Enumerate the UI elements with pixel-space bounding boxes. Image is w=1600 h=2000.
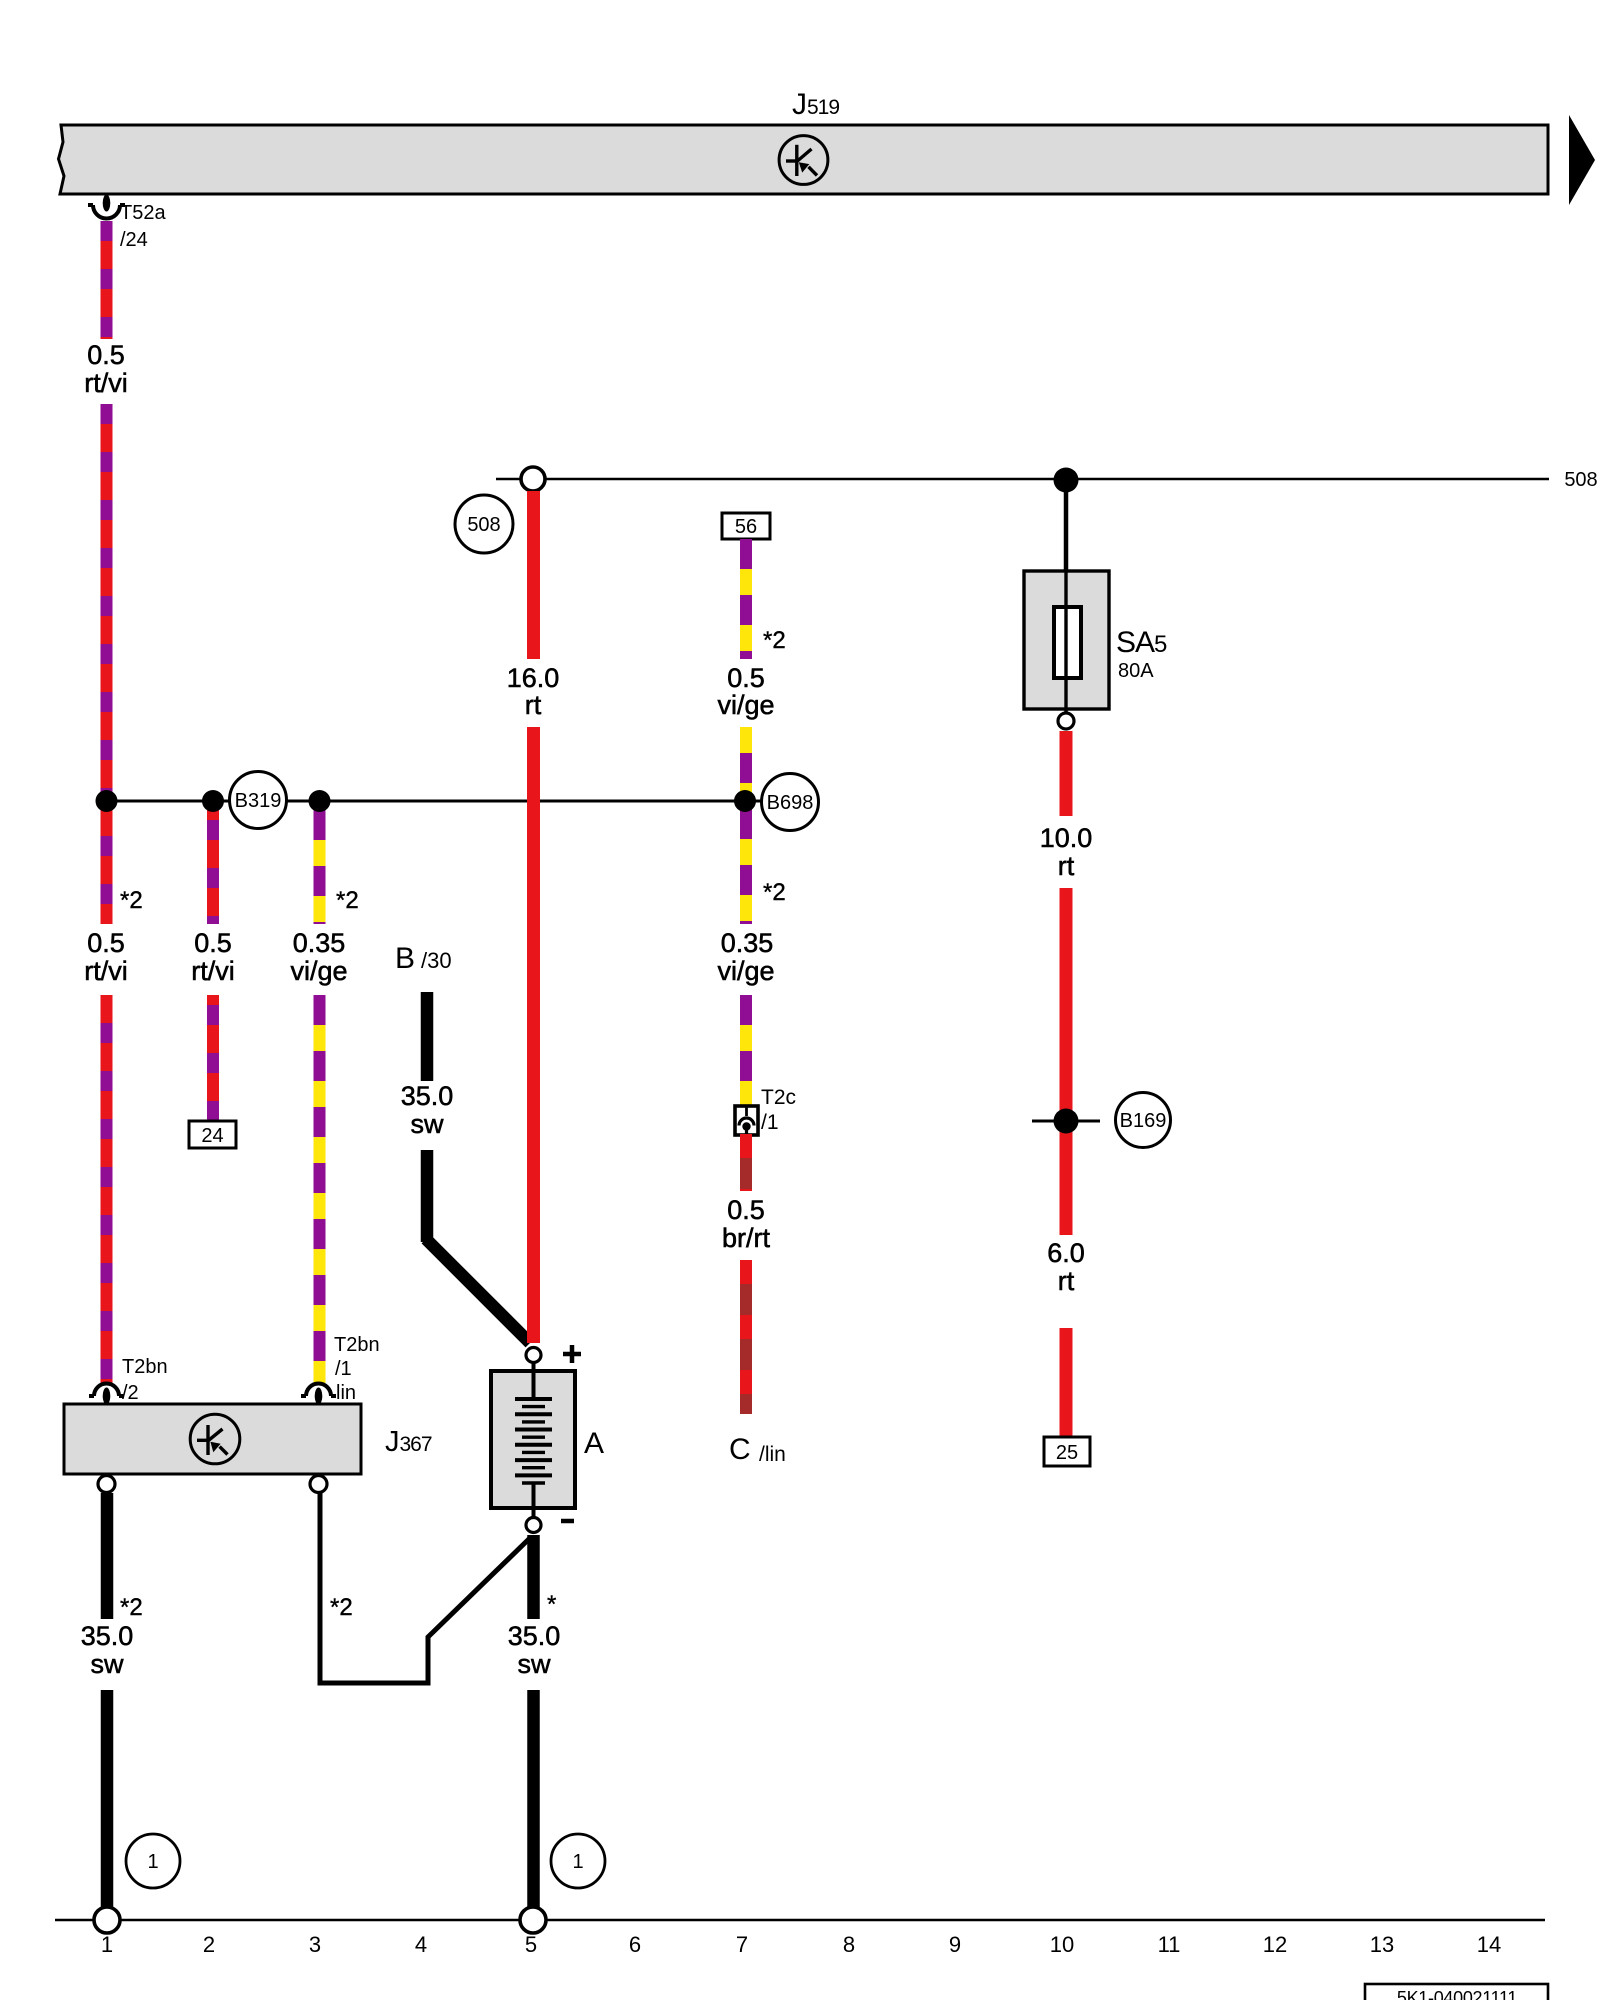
svg-text:25: 25 xyxy=(1056,1442,1078,1464)
wire: net 508 horizontal line xyxy=(496,478,1549,481)
svg-text:br/rt: br/rt xyxy=(722,1223,771,1253)
svg-text:B: B xyxy=(395,942,415,975)
svg-text:*2: *2 xyxy=(336,887,359,914)
svg-text:J519: J519 xyxy=(792,88,839,121)
svg-text:0.35: 0.35 xyxy=(293,928,346,958)
svg-text:1: 1 xyxy=(572,1851,583,1873)
svg-text:508: 508 xyxy=(1564,469,1597,491)
control unit J367 (battery monitoring) box xyxy=(64,1404,361,1474)
svg-text:56: 56 xyxy=(735,516,757,538)
connector T52a/24 pin at J519 xyxy=(88,195,125,219)
connector T2bn/1 pin at J367 col3 xyxy=(301,1384,336,1405)
svg-text:1: 1 xyxy=(101,1932,113,1957)
svg-text:24: 24 xyxy=(201,1125,223,1147)
svg-text:16.0: 16.0 xyxy=(507,663,560,693)
svg-text:rt: rt xyxy=(525,690,542,720)
svg-text:35.0: 35.0 xyxy=(81,1621,134,1651)
wire 35.0 sw col4 segment 2 xyxy=(421,1150,434,1242)
svg-text:0.5: 0.5 xyxy=(727,663,765,693)
wire 0.5 rt/vi col2 segment 1 xyxy=(207,810,219,924)
terminal open circle under fuse xyxy=(1058,713,1074,729)
svg-text:5: 5 xyxy=(525,1932,537,1957)
battery plus terminal circle xyxy=(526,1348,541,1363)
svg-text:*2: *2 xyxy=(763,879,786,906)
svg-text:C: C xyxy=(729,1433,751,1466)
svg-text:/lin: /lin xyxy=(759,1443,786,1466)
net label circle 508 xyxy=(455,495,513,553)
battery A box xyxy=(491,1371,575,1508)
wire 0.35 vi/ge col3 segment 2 xyxy=(314,995,326,1383)
junction dot col1 xyxy=(96,790,118,812)
svg-text:10.0: 10.0 xyxy=(1040,823,1093,853)
svg-text:/1: /1 xyxy=(335,1358,352,1380)
wire 10.0 rt col10 segment 2 xyxy=(1060,888,1073,1235)
svg-text:7: 7 xyxy=(736,1932,748,1957)
svg-text:0.5: 0.5 xyxy=(727,1195,765,1225)
wire 35.0 sw col4 segment 1 xyxy=(421,992,434,1081)
wire 35.0 sw col1 bottom segment 2 xyxy=(101,1690,114,1908)
svg-text:508: 508 xyxy=(467,514,500,536)
svg-text:*2: *2 xyxy=(330,1594,353,1621)
svg-text:lin: lin xyxy=(336,1382,356,1404)
node B169 short crossbar xyxy=(1032,1120,1100,1123)
svg-text:B169: B169 xyxy=(1120,1110,1167,1132)
wire: thin ground strap from J367 pin2 to battery minus xyxy=(320,1493,531,1683)
svg-text:B698: B698 xyxy=(767,792,814,814)
net label circle B169 xyxy=(1116,1093,1171,1148)
svg-text:rt/vi: rt/vi xyxy=(84,956,128,986)
svg-text:6: 6 xyxy=(629,1932,641,1957)
ground node circle 1 (col5) xyxy=(520,1907,546,1933)
svg-text:14: 14 xyxy=(1477,1932,1501,1957)
ground label circle 1 (right) xyxy=(551,1834,605,1888)
wire 35.0 sw col1 bottom segment 1 xyxy=(101,1493,114,1619)
svg-text:sw: sw xyxy=(91,1649,125,1679)
wire 35.0 sw col5 bottom segment 1 xyxy=(527,1535,540,1619)
wire 0.5 rt/vi col2 segment 2 xyxy=(207,995,219,1121)
drawing number box 5K1-040021111 xyxy=(1365,1984,1548,2000)
J367 internal ground-arrow symbol xyxy=(190,1414,240,1464)
direction arrow right of bar xyxy=(1569,115,1595,205)
wire 16.0 rt col5 segment 1 xyxy=(527,491,540,659)
svg-text:6.0: 6.0 xyxy=(1047,1238,1085,1268)
svg-text:T52a: T52a xyxy=(120,202,166,224)
svg-text:sw: sw xyxy=(411,1109,445,1139)
connector T2c/1 box xyxy=(735,1106,758,1135)
junction dot col7 xyxy=(734,790,756,812)
terminal open circle J367 pin 2 xyxy=(310,1476,327,1493)
svg-text:/24: /24 xyxy=(120,229,148,251)
svg-text:9: 9 xyxy=(949,1932,961,1957)
svg-text:13: 13 xyxy=(1370,1932,1394,1957)
svg-text:3: 3 xyxy=(309,1932,321,1957)
ground node circle 1 (col1) xyxy=(94,1907,120,1933)
net label circle B698 xyxy=(762,774,819,831)
wire 0.5 rt/vi col1 segment 1 xyxy=(101,221,113,339)
wire 0.5 br/rt col7 segment 2 xyxy=(740,1260,752,1414)
terminal box 24 xyxy=(189,1121,236,1148)
svg-text:0.5: 0.5 xyxy=(87,340,125,370)
svg-text:vi/ge: vi/ge xyxy=(290,956,347,986)
svg-text:sw: sw xyxy=(518,1649,552,1679)
svg-text:/2: /2 xyxy=(122,1382,139,1404)
junction dot col3 xyxy=(309,790,331,812)
svg-text:0.5: 0.5 xyxy=(87,928,125,958)
svg-text:*2: *2 xyxy=(120,887,143,914)
J519 internal ground-arrow symbol xyxy=(779,136,828,185)
wire 35.0 sw col5 bottom segment 2 xyxy=(527,1690,540,1908)
junction dot col10 on net 508 xyxy=(1054,468,1079,493)
terminal box 56 xyxy=(722,513,770,539)
ground label circle 1 (left) xyxy=(126,1834,180,1888)
label + xyxy=(563,1345,581,1363)
label - xyxy=(561,1519,574,1524)
wire 0.5 vi/ge col7 segment 2 xyxy=(740,727,752,924)
svg-text:2: 2 xyxy=(203,1932,215,1957)
svg-text:J367: J367 xyxy=(385,1426,432,1458)
battery internal cell plates xyxy=(515,1362,552,1518)
svg-text:35.0: 35.0 xyxy=(401,1081,454,1111)
svg-text:8: 8 xyxy=(843,1932,855,1957)
svg-text:10: 10 xyxy=(1050,1932,1074,1957)
wire 0.35 vi/ge col3 segment 1 xyxy=(314,810,326,924)
control unit J519 (onboard supply control unit bar) xyxy=(59,125,1549,194)
svg-text:0.35: 0.35 xyxy=(721,928,774,958)
svg-text:T2bn: T2bn xyxy=(122,1356,168,1378)
wire 0.35 vi/ge col7 segment 3 xyxy=(740,995,752,1107)
svg-text:4: 4 xyxy=(415,1932,427,1957)
svg-text:/1: /1 xyxy=(761,1111,779,1134)
svg-text:B319: B319 xyxy=(235,790,282,812)
svg-text:SA5: SA5 xyxy=(1116,626,1167,659)
svg-text:vi/ge: vi/ge xyxy=(717,956,774,986)
ground reference line xyxy=(55,1919,1545,1922)
wire 35.0 sw diagonal to battery plus xyxy=(426,1239,530,1343)
battery minus terminal circle xyxy=(526,1518,541,1533)
wire 0.5 rt/vi col1 segment 3 xyxy=(101,995,113,1384)
junction dot B169 xyxy=(1054,1109,1079,1134)
grid numbers 1-14 xyxy=(101,1932,1501,1957)
net label circle B319 xyxy=(230,772,287,829)
svg-text:*: * xyxy=(547,1591,556,1618)
svg-text:T2bn: T2bn xyxy=(334,1334,380,1356)
svg-text:0.5: 0.5 xyxy=(194,928,232,958)
svg-text:35.0: 35.0 xyxy=(508,1621,561,1651)
connector T2bn/2 pin at J367 col1 xyxy=(89,1384,124,1405)
svg-text:80A: 80A xyxy=(1118,660,1154,682)
node: open junction circle on net 508 xyxy=(521,467,545,491)
svg-text:T2c: T2c xyxy=(761,1086,796,1109)
wire 10.0 rt col10 segment 1 xyxy=(1060,731,1073,816)
svg-text:12: 12 xyxy=(1263,1932,1287,1957)
svg-text:*2: *2 xyxy=(763,627,786,654)
svg-text:11: 11 xyxy=(1158,1932,1181,1957)
wire 0.5 vi/ge col7 segment 1 xyxy=(740,539,752,659)
wire 0.5 br/rt col7 segment 1 xyxy=(740,1134,752,1191)
junction dot col2 xyxy=(202,790,224,812)
wire 16.0 rt col5 segment 2 xyxy=(527,727,540,1343)
svg-text:rt: rt xyxy=(1058,851,1075,881)
fuse SA5 80A xyxy=(1024,571,1109,713)
wire: junction crossbar line at y=801 xyxy=(106,800,763,803)
svg-text:rt/vi: rt/vi xyxy=(84,368,128,398)
terminal box 25 xyxy=(1044,1437,1090,1466)
terminal open circle J367 pin 1 xyxy=(98,1476,115,1493)
svg-text:*2: *2 xyxy=(120,1594,143,1621)
svg-text:5K1-040021111: 5K1-040021111 xyxy=(1397,1988,1517,2000)
wire 6.0 rt col10 segment 3 xyxy=(1060,1328,1073,1437)
svg-text:1: 1 xyxy=(147,1851,158,1873)
svg-text:vi/ge: vi/ge xyxy=(717,690,774,720)
wire: thin lead from net 508 to fuse SA5 xyxy=(1064,480,1069,575)
svg-text:/30: /30 xyxy=(421,948,452,973)
svg-text:rt: rt xyxy=(1058,1266,1075,1296)
svg-text:A: A xyxy=(584,1427,604,1460)
svg-text:rt/vi: rt/vi xyxy=(191,956,235,986)
wire 0.5 rt/vi col1 segment 2 xyxy=(101,404,113,924)
